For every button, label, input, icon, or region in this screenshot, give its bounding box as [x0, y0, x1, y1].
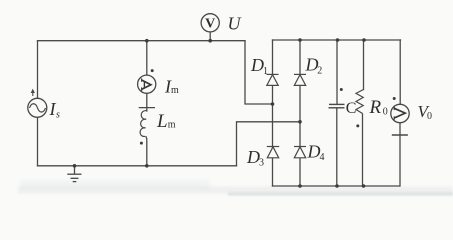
current source Is: [28, 98, 47, 117]
polarity dot R0: [356, 124, 359, 127]
svg-text:2: 2: [317, 66, 322, 77]
svg-text:s: s: [56, 110, 60, 121]
svg-text:U: U: [228, 14, 242, 34]
svg-text:0: 0: [383, 107, 388, 118]
svg-text:4: 4: [320, 152, 325, 163]
svg-text:m: m: [168, 120, 176, 131]
wire inductor to bottom: [145, 137, 148, 166]
junction dot top rail R0: [362, 38, 366, 42]
wire capacitor branch upper: [336, 40, 338, 104]
wire voltmeter stem: [209, 32, 211, 41]
diode D4: [294, 147, 306, 158]
junction dot top rail D2: [298, 38, 302, 42]
wire capacitor branch lower: [336, 109, 338, 186]
junction dot top rail C: [336, 38, 340, 42]
wire V0 branch upper: [399, 40, 401, 104]
wire Im branch upper: [146, 41, 148, 75]
junction dot bridge input lower: [298, 120, 302, 124]
wire bridge right branch: [299, 40, 301, 186]
wire bridge left branch: [272, 40, 274, 186]
inductor core bar: [139, 107, 155, 109]
svg-text:0: 0: [427, 111, 432, 122]
capacitor C: [329, 104, 345, 107]
inductor Lm coil: [140, 111, 147, 137]
diode D1: [267, 74, 279, 85]
diode D2: [294, 74, 306, 85]
svg-text:V: V: [205, 17, 215, 32]
wire top horizontal: [38, 40, 246, 42]
voltmeter V0: [391, 104, 409, 122]
wire resistor branch lower: [362, 114, 364, 186]
wire bottom rail: [273, 185, 400, 187]
wire bottom left horizontal: [38, 165, 237, 167]
junction dot ground: [73, 164, 77, 168]
polarity dot Im: [151, 69, 154, 72]
junction dot bridge input upper: [271, 102, 275, 106]
wire V0 branch lower: [399, 123, 401, 186]
junction dot bottom rail C: [335, 184, 339, 188]
svg-text:C: C: [346, 100, 357, 117]
junction dot bottom rail R0: [362, 184, 366, 188]
svg-text:1: 1: [263, 66, 268, 77]
resistor R0: [356, 90, 364, 114]
svg-text:D: D: [307, 142, 321, 162]
junction dot U: [208, 39, 212, 43]
scan artifact band bottom: [18, 180, 453, 196]
polarity dot V0: [393, 97, 396, 100]
wire left branch lower: [37, 117, 39, 166]
junction dot bottom rail D4: [298, 184, 302, 188]
terminal bar V0: [392, 134, 408, 136]
junction dot Im branch bottom: [145, 164, 149, 168]
svg-text:3: 3: [259, 158, 264, 169]
wire bridge input upper: [245, 41, 273, 104]
ground: [67, 166, 81, 182]
arrow for Is: [31, 89, 35, 96]
svg-text:D: D: [246, 147, 260, 167]
svg-text:R: R: [369, 97, 382, 118]
diode D3: [267, 147, 279, 158]
svg-text:m: m: [171, 85, 179, 96]
wire top rail: [273, 39, 401, 41]
wire resistor branch upper: [363, 40, 365, 90]
ammeter Im: [138, 75, 156, 93]
junction dot Im branch top: [145, 39, 149, 43]
svg-text:L: L: [156, 111, 168, 132]
wire bridge input lower: [237, 122, 301, 166]
polarity dot C: [340, 88, 343, 91]
wire ammeter to inductor: [146, 93, 148, 111]
voltmeter U: [201, 14, 219, 32]
polarity dot Lm: [140, 142, 143, 145]
svg-text:D: D: [250, 55, 264, 75]
wire left branch upper: [37, 41, 39, 99]
